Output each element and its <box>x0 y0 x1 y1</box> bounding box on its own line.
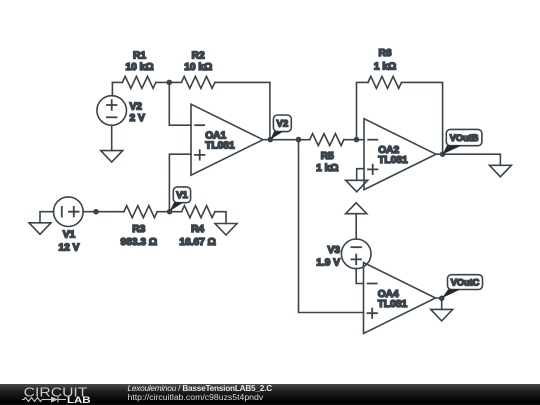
svg-text:TL081: TL081 <box>378 299 408 310</box>
svg-text:R4: R4 <box>191 224 204 235</box>
svg-text:VOutB: VOutB <box>450 133 479 143</box>
node VOutC <box>439 275 483 301</box>
wire <box>169 154 191 212</box>
wire <box>215 212 226 224</box>
svg-text:1 kΩ: 1 kΩ <box>316 163 338 174</box>
svg-text:V3: V3 <box>328 245 341 256</box>
svg-text:TL081: TL081 <box>378 155 408 166</box>
voltage source V3 <box>316 239 371 269</box>
wire <box>436 298 442 309</box>
wire <box>299 139 310 141</box>
svg-text:R1: R1 <box>133 50 146 61</box>
wire <box>169 82 191 125</box>
ground <box>101 151 123 163</box>
resistor R3 <box>121 206 158 248</box>
svg-text:LAB: LAB <box>67 395 91 405</box>
ground <box>489 165 511 177</box>
svg-text:V1: V1 <box>63 230 76 241</box>
svg-text:1 kΩ: 1 kΩ <box>374 61 396 72</box>
svg-text:R6: R6 <box>378 48 391 59</box>
node junction <box>296 137 302 143</box>
wire <box>344 139 364 141</box>
wire <box>263 139 299 141</box>
wire <box>156 81 182 83</box>
wire <box>436 154 500 165</box>
ground <box>215 224 237 236</box>
wire <box>357 169 364 181</box>
CircuitLab footer bar <box>0 384 540 405</box>
svg-text:V1: V1 <box>176 190 188 201</box>
op-amp OA2 <box>364 119 436 190</box>
resistor R2 <box>181 50 215 88</box>
wire <box>112 81 122 83</box>
supply arrow <box>346 203 367 214</box>
svg-text:R2: R2 <box>192 50 205 61</box>
wire <box>83 211 124 213</box>
node V2 <box>268 115 292 142</box>
wire <box>402 82 443 154</box>
node junction <box>93 209 99 215</box>
wire <box>111 82 113 95</box>
node VOutB <box>440 129 482 157</box>
node junction <box>354 137 360 143</box>
wire <box>111 125 113 150</box>
svg-text:TL081: TL081 <box>205 141 235 152</box>
footer title text <box>128 384 273 402</box>
resistor R5 <box>310 134 344 175</box>
svg-text:983.3 Ω: 983.3 Ω <box>121 237 158 248</box>
svg-text:R5: R5 <box>321 151 334 162</box>
resistor R6 <box>368 48 402 88</box>
ground <box>29 212 54 235</box>
svg-text:R3: R3 <box>132 224 145 235</box>
wire <box>215 81 270 83</box>
CircuitLab logo <box>22 384 91 404</box>
wire <box>356 269 363 284</box>
ground <box>431 309 453 321</box>
svg-text:12 V: 12 V <box>59 243 80 254</box>
wire <box>269 82 271 139</box>
svg-text:10 kΩ: 10 kΩ <box>126 62 154 73</box>
svg-text:http://circuitlab.com/c98uzs5t: http://circuitlab.com/c98uzs5t4pndv <box>128 392 264 402</box>
ground <box>346 180 368 192</box>
wire <box>355 214 357 239</box>
op-amp OA1 <box>191 104 263 175</box>
svg-text:10 kΩ: 10 kΩ <box>184 62 212 73</box>
resistor R1 <box>122 50 155 88</box>
op-amp OA4 <box>364 263 436 334</box>
svg-text:2 V: 2 V <box>130 113 145 124</box>
svg-text:V2: V2 <box>276 119 288 130</box>
resistor R4 <box>179 206 216 248</box>
svg-text:V2: V2 <box>130 101 143 112</box>
node junction <box>167 80 173 86</box>
wire <box>157 211 181 213</box>
wire <box>357 82 369 139</box>
svg-text:VOutC: VOutC <box>451 278 480 288</box>
voltage source V1 <box>54 197 84 254</box>
voltage source V2 <box>97 96 145 126</box>
svg-text:16.67 Ω: 16.67 Ω <box>179 237 216 248</box>
wire <box>299 140 364 313</box>
node V1 <box>167 187 191 215</box>
svg-text:1.9 V: 1.9 V <box>316 257 340 268</box>
